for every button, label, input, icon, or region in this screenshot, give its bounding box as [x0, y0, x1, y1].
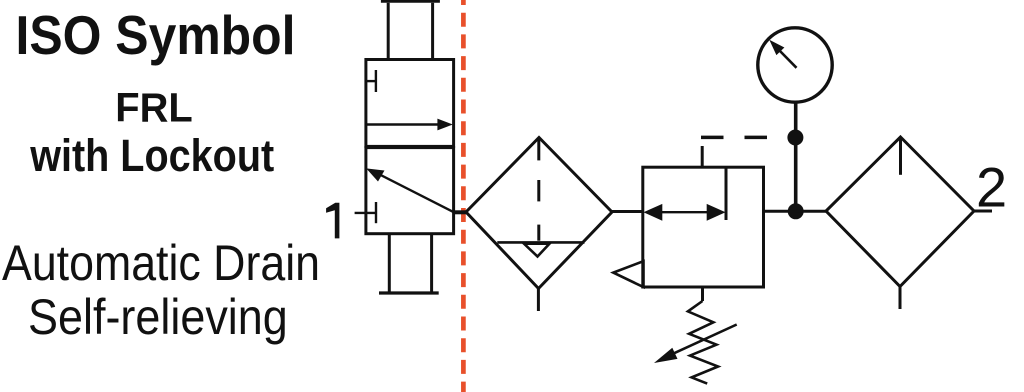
automatic drain water level line: [497, 241, 584, 244]
title text "ISO Symbol": [16, 4, 296, 66]
wire gauge junction to lubricator inlet: [796, 210, 827, 213]
relief vent triangle: [613, 261, 643, 287]
lubricator L1 diamond body: [826, 137, 974, 287]
svg-text:FRL: FRL: [115, 85, 193, 131]
wire valve outlet to filter inlet: [454, 210, 467, 214]
port 1 line with blocked T: [355, 202, 376, 223]
lockout valve V1 top port tube: [381, 1, 440, 59]
regulator spring stub: [701, 287, 704, 301]
lockout valve V1 lower position box: [366, 148, 454, 234]
regulator internal vertical passage: [725, 167, 728, 220]
adjustment spring zigzag: [688, 301, 718, 384]
subtitle text "FRL": [115, 85, 193, 131]
caption text "Automatic Drain": [2, 235, 320, 291]
automatic drain triangle: [524, 244, 550, 257]
subtitle text "with Lockout": [29, 130, 274, 181]
flow pass arrow upper position: [366, 119, 453, 131]
regulator double arrow: [644, 204, 726, 221]
svg-text:ISO Symbol: ISO Symbol: [16, 4, 296, 66]
blocked port T symbol upper position: [366, 70, 376, 92]
junction dot upper: [787, 130, 803, 146]
gauge needle: [769, 40, 796, 68]
dashed pilot line to gauge junction: [701, 136, 790, 140]
pressure gauge G1: [758, 28, 832, 102]
svg-text:Automatic Drain: Automatic Drain: [2, 235, 320, 291]
svg-text:with Lockout: with Lockout: [29, 130, 274, 181]
red dashed boundary line: [461, 0, 466, 392]
lubricator drip line: [899, 137, 902, 175]
gauge riser wire: [794, 103, 798, 211]
adjustment arrow over spring: [654, 325, 737, 364]
regulator pilot stub above box: [701, 146, 704, 167]
vent flow arrow lower position: [366, 168, 454, 212]
wire regulator outlet to gauge junction: [764, 210, 797, 213]
lubricator bottom stub: [899, 287, 902, 310]
svg-text:2: 2: [976, 156, 1007, 219]
regulator R1 body box: [643, 167, 764, 287]
svg-text:Self-relieving: Self-relieving: [28, 289, 288, 345]
lubricator outlet stub port 2: [974, 210, 992, 213]
lockout valve V1 upper position box: [366, 60, 454, 147]
port label 2: [976, 156, 1007, 219]
junction dot lower: [788, 203, 804, 219]
port label 1: [326, 203, 339, 239]
filter drain bottom stub: [537, 289, 540, 312]
filter element dashed line: [537, 138, 540, 241]
lockout valve V1 bottom exhaust tube: [379, 234, 439, 294]
wire filter outlet to regulator inlet: [612, 210, 643, 213]
caption text "Self-relieving": [28, 289, 288, 345]
filter F1 diamond body: [466, 138, 612, 289]
